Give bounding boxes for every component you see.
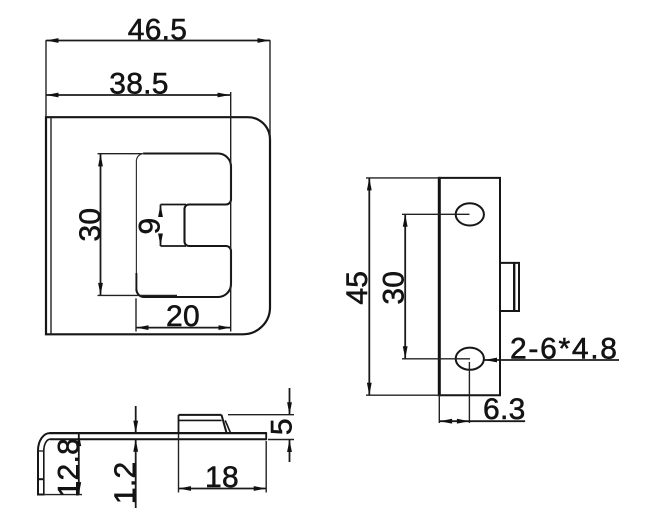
dimension 6.3 line xyxy=(439,420,525,422)
side view left edge thick xyxy=(438,177,441,396)
dimension 30 front line xyxy=(100,154,102,296)
dimension 9 line xyxy=(160,205,162,218)
svg-text:30: 30 xyxy=(378,271,411,305)
dimension 38.5 extension line xyxy=(230,92,232,332)
dimension 38.5 line xyxy=(46,94,230,96)
front view cutout left edge thin xyxy=(136,154,144,290)
front view body outline xyxy=(46,117,270,334)
dimension 30 front extension lines xyxy=(98,153,143,155)
dimension 20 line xyxy=(136,327,231,329)
bottom view bump inner top xyxy=(179,419,222,421)
dimension 46.5 extension lines xyxy=(45,40,47,117)
dimension 18 extension lines xyxy=(178,434,180,493)
dimension 5 line lower xyxy=(289,440,291,463)
front view cutout left edge lower thick segment xyxy=(135,273,137,291)
bottom view bump left edge xyxy=(178,415,180,433)
side view top hole xyxy=(456,203,484,225)
bottom view plate right end xyxy=(265,432,267,440)
bottom view bump inner slope xyxy=(225,420,230,433)
svg-text:9: 9 xyxy=(134,218,167,235)
side view rectangle xyxy=(439,178,500,395)
svg-text:46.5: 46.5 xyxy=(128,14,188,47)
bottom view plate bottom line xyxy=(50,438,266,440)
dimension 5 extension lines xyxy=(228,414,294,416)
bottom view leg bottom xyxy=(37,494,45,496)
leader 2-6*4.8 xyxy=(485,359,620,361)
side view protrusion xyxy=(500,263,519,311)
dimension 30 side line xyxy=(404,214,406,358)
dimension 45 line xyxy=(368,178,370,395)
bottom view bump outer slope xyxy=(222,415,227,433)
svg-text:5: 5 xyxy=(265,418,298,435)
dimension 12.8 extension line xyxy=(45,494,82,496)
svg-text:20: 20 xyxy=(166,300,200,333)
svg-text:2-6*4.8: 2-6*4.8 xyxy=(510,332,619,365)
bottom view leg right edge xyxy=(43,451,45,495)
svg-text:12.8: 12.8 xyxy=(53,438,86,498)
dimension 20 extension line xyxy=(135,298,137,331)
svg-text:18: 18 xyxy=(205,461,239,494)
svg-text:45: 45 xyxy=(341,271,374,305)
dimension 1.2 line lower xyxy=(135,439,137,508)
dimension 45 extension lines xyxy=(366,177,441,179)
svg-text:30: 30 xyxy=(74,208,107,242)
svg-text:38.5: 38.5 xyxy=(109,68,169,101)
bottom view plate top line xyxy=(50,432,267,434)
svg-text:6.3: 6.3 xyxy=(483,393,526,426)
dimension 1.2 line upper xyxy=(135,406,137,433)
dimension 46.5 line xyxy=(46,40,270,42)
dimension 5 line upper xyxy=(289,388,291,415)
dimension 6.3 extension lines xyxy=(438,397,440,424)
bottom view bend inner arc xyxy=(44,439,51,451)
front view bend line xyxy=(50,118,52,334)
bottom view leg mark tick xyxy=(38,478,44,480)
front view C-shaped cutout xyxy=(136,154,231,298)
bottom view bend tangent tick xyxy=(38,450,44,452)
bottom view bend outer arc xyxy=(38,433,50,451)
side view protrusion inner line xyxy=(513,263,515,311)
dimension 30 side extension lines xyxy=(402,213,470,215)
dimension 9 extension lines xyxy=(161,204,187,206)
svg-text:1.2: 1.2 xyxy=(109,461,142,504)
dimension 12.8 line xyxy=(78,434,80,495)
bottom view bump outer top xyxy=(179,414,222,416)
side view bottom hole xyxy=(456,348,484,370)
bottom view leg left edge xyxy=(37,451,39,495)
dimension 18 line xyxy=(179,488,267,490)
